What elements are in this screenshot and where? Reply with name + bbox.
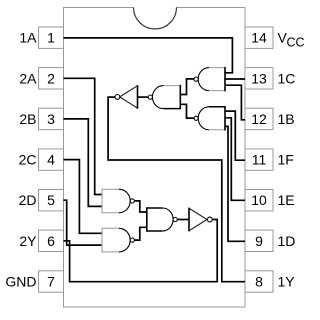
label 2C (pin 4 signal name)	[19, 152, 37, 168]
inverter U2D (drives output 2Y)	[189, 208, 212, 232]
wire U1A output to NAND U1C top input	[180, 79, 194, 95]
pin 10 number	[251, 192, 267, 208]
wire net 2B: pin 3 to NAND U2A bottom input	[64, 119, 103, 206]
NAND gate U1B (inputs 1F,1E,1D)	[194, 106, 225, 130]
svg-text:8: 8	[255, 274, 263, 290]
pin 3 number	[47, 111, 55, 127]
svg-text:12: 12	[251, 111, 267, 127]
pin 1 number	[47, 30, 55, 46]
label 1E (pin 10 signal name)	[278, 192, 295, 208]
svg-text:6: 6	[47, 233, 55, 249]
label 2Y (pin 6 signal name)	[19, 233, 37, 249]
IC package outline U1 (14-pin DIP body)	[64, 8, 246, 308]
wire net 1F: NAND U1B top input to pin 11	[225, 111, 245, 160]
svg-text:14: 14	[251, 30, 267, 46]
pin 8 box (right side)	[245, 271, 273, 292]
svg-text:3: 3	[47, 111, 55, 127]
pin 11 box (right side)	[245, 149, 273, 170]
wire U2B output to NAND U2C bottom input	[134, 227, 146, 240]
NAND gate U1A (inputs 1A,1C,1B)	[194, 67, 225, 91]
svg-text:2C: 2C	[19, 152, 37, 168]
svg-text:13: 13	[251, 70, 267, 86]
pin 9 box (right side)	[245, 230, 273, 251]
svg-text:11: 11	[252, 152, 267, 168]
pin 3 box (left side)	[39, 108, 64, 129]
pin 8 number	[255, 274, 263, 290]
pin 4 box (left side)	[39, 149, 64, 170]
svg-text:1Y: 1Y	[278, 274, 296, 290]
pin 2 number	[47, 70, 55, 86]
pin 1 box (left side)	[39, 27, 64, 48]
svg-text:GND: GND	[5, 274, 36, 290]
wire U1C output to inverter U1D input	[138, 96, 149, 98]
label 1F (pin 11 signal name)	[278, 152, 294, 168]
svg-text:1A: 1A	[19, 30, 37, 46]
svg-text:1F: 1F	[278, 152, 294, 168]
wire net 1A: pin 1 to NAND U1A top input	[64, 38, 233, 73]
wire U2A output to NAND U2C top input	[134, 201, 146, 212]
pin 6 number	[47, 233, 55, 249]
label 2A (pin 2 signal name)	[19, 70, 37, 86]
svg-text:9: 9	[255, 233, 263, 249]
wire U2C output to inverter U2D input	[177, 219, 189, 221]
pin 12 number	[251, 111, 267, 127]
NAND gate U2B (inputs 2C,2D)	[102, 228, 134, 253]
NAND gate U2A (inputs 2A,2B)	[102, 189, 134, 214]
wire net 2D: pin 5 to NAND U2B bottom input	[64, 200, 103, 245]
wire net 1C: pin 13 to NAND U1A middle input	[225, 78, 245, 80]
svg-text:2: 2	[47, 70, 55, 86]
svg-text:1: 1	[47, 30, 55, 46]
pin 13 number	[251, 70, 267, 86]
wire net 1B: NAND U1A bottom input to pin 12	[225, 85, 245, 120]
svg-text:7: 7	[47, 274, 55, 290]
index notch arc (pin-1 end marker)	[134, 8, 177, 29]
NAND gate U1C (combines U1A,U1B outputs)	[148, 85, 180, 109]
label 1Y (pin 8 signal name)	[278, 274, 296, 290]
svg-text:5: 5	[47, 192, 55, 208]
svg-text:1E: 1E	[278, 192, 295, 208]
label GND (pin 7 signal name)	[5, 274, 36, 290]
svg-text:CC: CC	[287, 35, 305, 49]
pin 2 box (left side)	[39, 68, 64, 89]
label 1A (pin 1 signal name)	[19, 30, 37, 46]
svg-text:2A: 2A	[19, 70, 37, 86]
label 1C (pin 13 signal name)	[278, 70, 296, 86]
svg-text:10: 10	[251, 192, 267, 208]
pin 4 number	[47, 152, 55, 168]
label 1B (pin 12 signal name)	[278, 111, 295, 127]
svg-text:1C: 1C	[278, 70, 296, 86]
svg-text:2D: 2D	[19, 192, 37, 208]
svg-text:2Y: 2Y	[19, 233, 37, 249]
pin 5 box (left side)	[39, 190, 64, 211]
pin 14 number	[251, 30, 267, 46]
pin 7 number	[47, 274, 55, 290]
pin 13 box (right side)	[245, 68, 273, 89]
svg-text:2B: 2B	[19, 111, 36, 127]
label VCC (pin 14 signal name)	[278, 30, 305, 50]
wire net 2Y: inverter U2D output to pin 6	[64, 220, 218, 282]
label 2D (pin 5 signal name)	[19, 192, 37, 208]
pin 7 box (left side)	[39, 271, 64, 292]
wire U1B output to NAND U1C bottom input	[180, 104, 194, 118]
svg-text:4: 4	[47, 152, 55, 168]
pin 14 box (right side)	[245, 27, 273, 48]
svg-text:1D: 1D	[278, 233, 296, 249]
label 1D (pin 9 signal name)	[278, 233, 296, 249]
pin 12 box (right side)	[245, 108, 273, 129]
pin 11 number	[252, 152, 267, 168]
label 2B (pin 3 signal name)	[19, 111, 36, 127]
wire net 1D: NAND U1B bottom input to pin 9	[225, 126, 245, 241]
wire net 2A: pin 2 to NAND U2A top input	[64, 78, 103, 194]
wire net 2C: pin 4 to NAND U2B top input	[64, 160, 103, 234]
NAND gate U2C (combines U2A,U2B outputs)	[147, 207, 177, 231]
pin 10 box (right side)	[245, 190, 273, 211]
wire net 1E: NAND U1B middle input to pin 10	[225, 118, 245, 201]
pin 6 box (left side)	[39, 230, 64, 251]
inverter U1D (drives output 1Y)	[115, 85, 138, 109]
pin 5 number	[47, 192, 55, 208]
svg-text:1B: 1B	[278, 111, 295, 127]
pin 9 number	[255, 233, 263, 249]
wire net 1Y: inverter U1D output to pin 8	[108, 97, 245, 282]
